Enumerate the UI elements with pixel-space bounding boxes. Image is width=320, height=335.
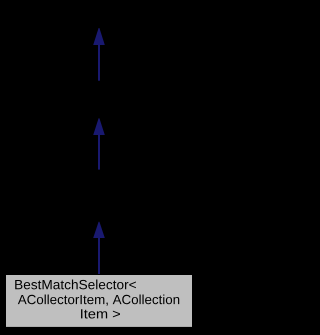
arrow 3 shaft xyxy=(98,237,100,275)
arrow 3 head xyxy=(93,222,105,238)
label line 2: ACollectorItem, ACollection xyxy=(18,294,179,305)
arrow 1 shaft xyxy=(98,44,100,81)
inheritance arrow 3 (bottom, from BestMatchSelector box) xyxy=(93,222,105,275)
node border + fill xyxy=(6,275,193,328)
inheritance arrow 1 (topmost) xyxy=(93,28,105,81)
label line 1: BestMatchSelector< xyxy=(15,280,136,290)
arrow 2 shaft xyxy=(98,133,100,170)
arrow 2 head xyxy=(93,118,105,135)
class node BestMatchSelector xyxy=(6,275,193,328)
label line 3: Item > xyxy=(81,309,120,318)
arrow 1 head xyxy=(93,28,105,45)
inheritance arrow 2 (middle) xyxy=(93,118,105,169)
